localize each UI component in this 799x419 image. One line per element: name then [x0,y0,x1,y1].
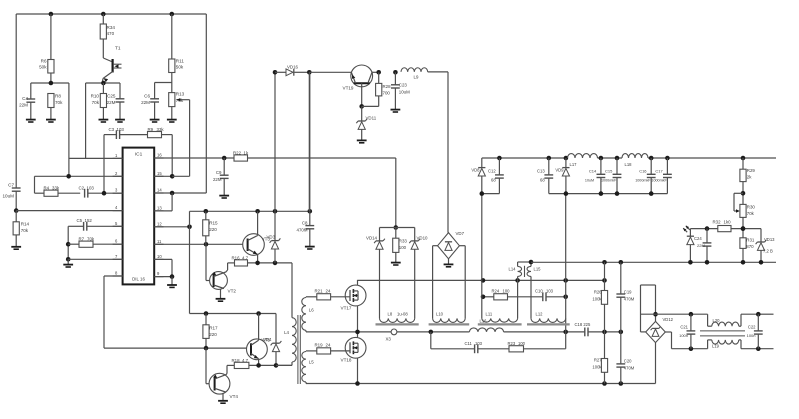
svg-text:R18: R18 [232,358,241,363]
svg-text:R34: R34 [107,25,116,30]
svg-text:12: 12 [157,221,162,226]
svg-text:C21: C21 [680,325,688,330]
svg-text:C3: C3 [109,127,115,132]
svg-text:R7: R7 [79,237,85,242]
svg-text:R19: R19 [315,343,324,348]
svg-text:11: 11 [157,239,162,244]
svg-text:470M: 470M [624,297,635,302]
svg-text:13: 13 [157,205,162,210]
svg-text:L10: L10 [436,312,444,317]
svg-text:C9: C9 [216,170,222,175]
svg-text:R22: R22 [233,151,242,156]
svg-text:C6: C6 [144,94,150,99]
svg-text:22M: 22M [107,100,116,105]
svg-text:16: 16 [157,153,162,158]
svg-text:VD16: VD16 [287,65,299,70]
svg-text:2k: 2k [747,175,752,180]
svg-text:70k: 70k [55,100,63,105]
svg-text:R6: R6 [41,59,47,64]
svg-text:VD11: VD11 [366,116,377,121]
svg-text:C25: C25 [107,94,116,99]
svg-text:R24: R24 [492,289,500,294]
svg-text:870: 870 [746,244,754,249]
svg-text:L6: L6 [309,308,314,313]
svg-text:C18 225: C18 225 [575,322,592,327]
svg-text:X3: X3 [386,337,392,342]
svg-text:152: 152 [85,218,93,223]
svg-text:C20: C20 [624,359,632,364]
svg-text:R29: R29 [747,168,756,173]
svg-text:C5: C5 [77,218,83,223]
svg-text:C22: C22 [748,325,756,330]
svg-text:220: 220 [209,332,217,337]
svg-text:100: 100 [518,341,526,346]
svg-text:7,2 B: 7,2 B [763,249,773,254]
svg-text:10uM: 10uM [585,179,594,183]
svg-text:68: 68 [540,178,545,183]
svg-text:10uM: 10uM [399,90,410,95]
svg-text:50k: 50k [39,65,47,70]
svg-text:R15: R15 [209,221,218,226]
svg-text:103: 103 [87,186,95,191]
svg-text:220: 220 [209,227,217,232]
svg-text:1k0: 1k0 [724,220,732,225]
svg-text:22M: 22M [213,177,222,182]
svg-text:L14: L14 [509,267,517,272]
svg-text:15: 15 [157,171,162,176]
svg-text:R16: R16 [232,256,241,261]
svg-text:C24: C24 [694,236,702,241]
svg-text:24: 24 [326,289,331,294]
svg-text:C13: C13 [537,169,545,174]
svg-text:R28: R28 [383,84,392,89]
svg-text:R10: R10 [91,94,100,99]
svg-text:470M: 470M [624,366,635,371]
svg-text:L4: L4 [284,330,289,335]
svg-text:70k: 70k [87,237,95,242]
svg-text:70k: 70k [21,228,29,233]
svg-text:R13: R13 [176,92,185,97]
svg-text:VT18: VT18 [341,358,352,363]
svg-text:70k: 70k [92,100,100,105]
svg-text:R31: R31 [746,238,755,243]
svg-text:VD12: VD12 [663,317,674,322]
svg-text:100: 100 [503,289,511,294]
svg-text:C11: C11 [465,341,473,346]
svg-text:4.7: 4.7 [242,358,249,363]
svg-text:C4: C4 [22,96,28,101]
svg-text:C14: C14 [589,169,597,174]
svg-text:470: 470 [107,31,115,36]
svg-text:70k: 70k [747,211,755,216]
svg-text:R8: R8 [55,94,61,99]
svg-text:VT19: VT19 [343,86,354,91]
svg-text:C8: C8 [302,221,308,226]
svg-text:10uM: 10uM [3,194,15,199]
svg-text:C19: C19 [624,290,632,295]
svg-text:VD9: VD9 [555,168,564,173]
svg-text:L18: L18 [625,162,633,167]
svg-text:1u-08: 1u-08 [397,312,408,317]
svg-text:R27: R27 [594,358,602,363]
svg-text:R26: R26 [594,290,602,295]
svg-text:VD8: VD8 [471,168,480,173]
svg-text:R11: R11 [176,59,185,64]
svg-text:470M: 470M [297,228,308,233]
svg-text:100n: 100n [679,333,688,338]
svg-text:L8: L8 [388,312,393,317]
svg-text:VD13: VD13 [764,237,775,242]
svg-text:1000mkF: 1000mkF [635,179,651,183]
svg-text:VT5: VT5 [262,338,271,343]
svg-text:L11: L11 [486,312,493,317]
svg-text:C12: C12 [488,169,496,174]
svg-text:100k: 100k [592,365,602,370]
svg-text:L19: L19 [712,344,720,349]
svg-text:VD7: VD7 [456,231,465,236]
svg-text:R9: R9 [148,127,154,132]
svg-text:100k: 100k [592,297,602,302]
svg-text:33k: 33k [52,186,60,191]
svg-text:R4: R4 [44,186,50,191]
svg-text:22M: 22M [141,100,150,105]
svg-text:1000mkF: 1000mkF [601,179,617,183]
svg-text:R33: R33 [399,239,408,244]
svg-text:C10: C10 [535,289,543,294]
svg-text:VD10: VD10 [417,236,429,241]
svg-text:C15: C15 [605,169,613,174]
svg-text:L15: L15 [534,267,542,272]
svg-text:R32: R32 [713,220,722,225]
svg-text:100n: 100n [747,333,756,338]
svg-text:1000mkF: 1000mkF [651,179,667,183]
svg-text:100: 100 [399,245,407,250]
svg-text:IC1: IC1 [135,152,143,158]
svg-text:L5: L5 [309,360,314,365]
svg-text:103: 103 [117,127,125,132]
svg-text:22M: 22M [19,103,28,108]
svg-text:C7: C7 [8,183,14,188]
svg-text:10: 10 [157,254,162,259]
svg-text:1k: 1k [244,151,249,156]
svg-text:4.7: 4.7 [242,256,249,261]
svg-text:L12: L12 [536,312,544,317]
svg-text:103: 103 [546,289,554,294]
svg-text:R21: R21 [315,289,324,294]
svg-text:22M: 22M [697,243,705,248]
svg-text:DIL 16: DIL 16 [132,277,145,282]
svg-text:VT17: VT17 [341,306,352,311]
svg-text:68: 68 [491,178,496,183]
svg-text:C23: C23 [399,83,408,88]
svg-text:103: 103 [475,341,483,346]
svg-text:T1: T1 [115,46,121,52]
svg-text:24: 24 [326,343,331,348]
svg-text:14: 14 [157,188,162,193]
svg-text:VT2: VT2 [228,289,237,294]
svg-text:C2: C2 [79,186,85,191]
svg-text:L17: L17 [570,162,578,167]
svg-text:C16: C16 [639,169,647,174]
svg-text:VD3: VD3 [267,235,276,240]
svg-text:C17: C17 [655,169,663,174]
svg-text:R23: R23 [508,341,516,346]
svg-text:50k: 50k [176,65,184,70]
svg-text:R30: R30 [747,205,756,210]
svg-text:R14: R14 [21,222,30,227]
svg-text:L9: L9 [414,75,419,80]
svg-text:VT4: VT4 [230,394,239,399]
svg-text:700: 700 [383,91,391,96]
svg-text:L20: L20 [713,318,721,323]
svg-text:33k: 33k [157,127,165,132]
svg-text:VD14: VD14 [366,236,378,241]
svg-text:R17: R17 [209,326,218,331]
